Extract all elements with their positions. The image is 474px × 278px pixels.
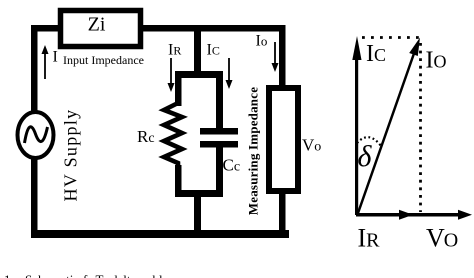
current arrow IR: [168, 42, 182, 93]
svg-text:HV Supply: HV Supply: [61, 109, 81, 202]
phasor axis IC vertical: [352, 36, 386, 215]
source HV Supply: [18, 112, 54, 158]
svg-text:IC: IC: [207, 42, 220, 59]
current arrow IC: [207, 42, 233, 90]
wire left vertical: [31, 25, 38, 238]
resistor Rc zigzag: [164, 103, 182, 167]
RC network top bar: [175, 71, 223, 78]
svg-text:Input Impedance: Input Impedance: [63, 53, 144, 67]
svg-text:1:SchematicforTandeltacable: 1:SchematicforTandeltacable: [4, 272, 169, 278]
capacitor Cc plates: [200, 128, 238, 135]
wire capacitor branch upper: [216, 71, 223, 131]
wire capacitor branch lower: [216, 146, 223, 197]
dotted line right vertical: [419, 43, 422, 212]
svg-text:IC: IC: [366, 41, 386, 67]
phasor vector IO: [358, 38, 447, 215]
wire top horizontal: [31, 25, 285, 32]
wire right vertical: [279, 25, 286, 238]
measuring impedance box Vo: [269, 88, 321, 191]
svg-text:δ: δ: [358, 140, 373, 173]
svg-text:IO: IO: [426, 48, 447, 74]
svg-text:Measuring Impedance: Measuring Impedance: [246, 87, 261, 215]
phasor axis VO horizontal: [356, 210, 472, 220]
svg-text:Io: Io: [256, 33, 268, 50]
current arrow IO: [256, 33, 279, 73]
svg-text:Zi: Zi: [88, 14, 106, 36]
wire resistor branch lower: [175, 165, 182, 195]
wire resistor branch upper: [175, 71, 182, 106]
svg-text:IR: IR: [168, 42, 181, 59]
impedance box Zi: [61, 11, 141, 47]
dotted line top horizontal: [362, 36, 423, 39]
wire bottom horizontal: [31, 230, 289, 238]
current arrow I: [42, 45, 58, 79]
wire RC stem bottom: [194, 195, 201, 235]
svg-text:I: I: [53, 49, 58, 66]
RC network bottom bar: [175, 190, 223, 197]
angle delta arc dotted: [357, 137, 381, 146]
wire RC stem top: [194, 31, 201, 76]
